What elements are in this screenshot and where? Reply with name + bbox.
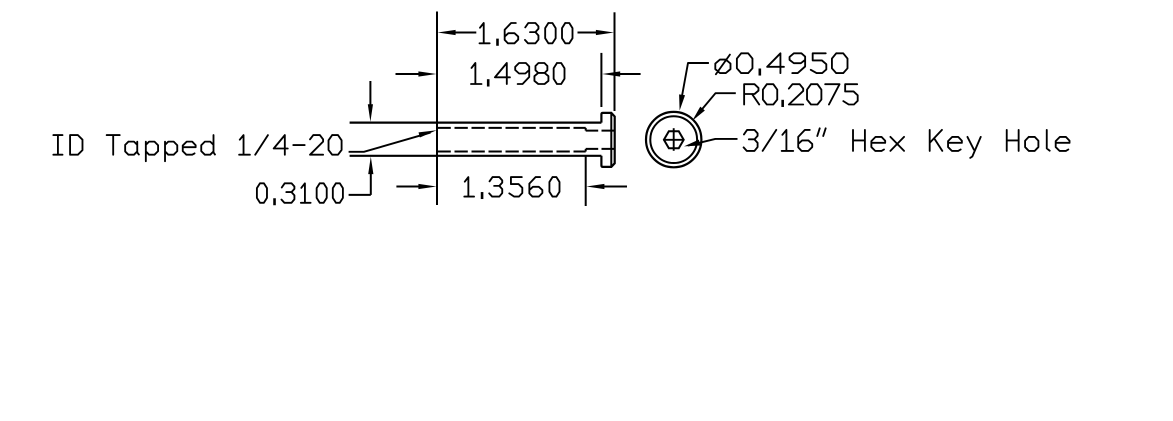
dim 1.6300 dimension line left: [452, 32, 476, 34]
leader: R0.2075: [696, 93, 736, 117]
pin body top outline: [350, 121, 602, 123]
extension line left (overall): [436, 12, 438, 206]
dim text 0.3100: [257, 183, 343, 203]
leader: hex key hole note: [688, 139, 738, 146]
dim text 1.6300: [480, 23, 573, 43]
hidden step top: [585, 128, 587, 131]
label ID Tapped 1/4-20: [53, 135, 341, 161]
dim 0.3100 lower arrow: [370, 172, 372, 195]
dim 1.3560 arrow right: [602, 186, 627, 188]
hex key hole: [664, 131, 684, 148]
dim 1.4980 arrow right: [618, 73, 641, 75]
dim 1.4980 arrow left: [396, 73, 422, 75]
dim 1.3560 arrow left: [396, 186, 421, 188]
hidden line: pilot hole bottom: [586, 148, 615, 150]
dim 1.6300 dimension line right: [578, 32, 600, 34]
extension line body length: [600, 53, 602, 107]
extension line right overall length: [614, 12, 616, 111]
hidden step bottom: [585, 149, 587, 152]
hidden line: pilot hole top: [586, 130, 615, 132]
end view head diameter circle: [650, 116, 697, 163]
end view outer circle: [646, 112, 701, 167]
dim 0.3100 upper arrow: [369, 81, 371, 106]
dim text 1.4980: [471, 63, 565, 84]
hidden line: tapped hole top: [438, 127, 586, 129]
leader: ID Tapped 1/4-20: [349, 133, 431, 152]
head chamfer tangent line: [610, 113, 612, 167]
label 3/16 hex key hole: [744, 128, 1070, 158]
pin body bottom outline: [350, 155, 602, 157]
extension line thread depth: [585, 156, 587, 206]
hidden line: tapped hole bottom: [438, 151, 586, 153]
center mark horizontal: [663, 139, 683, 141]
center mark vertical: [673, 128, 675, 151]
leader: diameter 0.4950: [681, 63, 709, 102]
label R0.2075: [744, 84, 858, 104]
dim text 1.3560: [464, 177, 559, 197]
label dia 0.4950: [715, 53, 847, 74]
dim 0.3100 hook: [349, 194, 371, 196]
pin head outline: [601, 113, 614, 167]
